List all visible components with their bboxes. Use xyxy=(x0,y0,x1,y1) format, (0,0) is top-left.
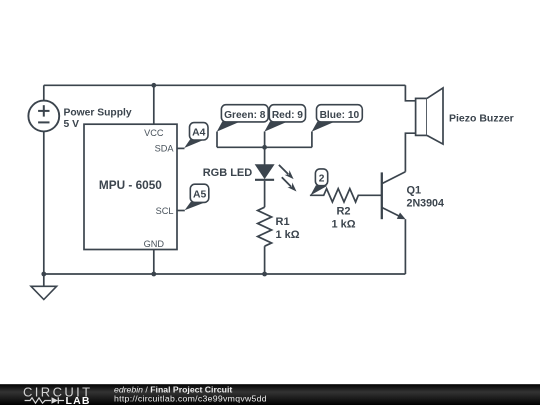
node junction power supply rail xyxy=(41,272,46,277)
speaker piezo buzzer SP1 xyxy=(416,88,514,144)
wire blue tag drop xyxy=(311,132,313,148)
svg-text:5 V: 5 V xyxy=(64,119,80,130)
node junction top rail to VCC xyxy=(151,83,156,88)
wire emitter to rail xyxy=(404,219,406,274)
svg-text:Green: 8: Green: 8 xyxy=(224,110,266,121)
svg-text:2N3904: 2N3904 xyxy=(407,198,444,210)
svg-text:Red: 9: Red: 9 xyxy=(272,110,303,121)
node tag Green: 8 xyxy=(217,105,268,132)
wire SCL pin xyxy=(177,210,185,212)
footer bar xyxy=(0,384,540,405)
svg-text:RGB LED: RGB LED xyxy=(203,167,253,179)
wire power supply top lead xyxy=(43,85,45,100)
wire green tag drop xyxy=(216,132,218,148)
svg-text:http://circuitlab.com/c3e99vmq: http://circuitlab.com/c3e99vmqvw5dd xyxy=(114,394,267,404)
node tag A5 xyxy=(185,184,209,210)
svg-text:LAB: LAB xyxy=(66,395,91,405)
svg-text:A4: A4 xyxy=(192,127,206,138)
node tag Blue: 10 xyxy=(312,105,363,132)
node tag 2 xyxy=(310,169,327,196)
wire GND drop xyxy=(153,250,155,275)
node junction R1 rail xyxy=(262,272,267,277)
node tag Red: 9 xyxy=(264,105,305,132)
wire VCC drop xyxy=(153,85,155,124)
wire SDA pin xyxy=(177,147,185,149)
svg-text:1 kΩ: 1 kΩ xyxy=(276,229,300,241)
svg-text:MPU - 6050: MPU - 6050 xyxy=(99,178,162,192)
power supply V1 5V xyxy=(28,101,131,132)
CircuitLab logo xyxy=(23,384,93,407)
svg-text:A5: A5 xyxy=(193,189,207,200)
resistor R2 1k xyxy=(310,189,382,231)
resistor R1 1k xyxy=(258,207,300,246)
svg-text:1 kΩ: 1 kΩ xyxy=(331,219,355,231)
wire collector to buzzer xyxy=(405,133,415,172)
op-amp MPU-6050 box U1 xyxy=(84,124,177,249)
svg-text:SDA: SDA xyxy=(155,144,175,154)
svg-text:SCL: SCL xyxy=(156,206,174,216)
svg-text:GND: GND xyxy=(144,239,165,249)
LED D1 RGB LED xyxy=(203,165,297,192)
svg-text:R2: R2 xyxy=(336,205,350,217)
ground xyxy=(31,274,57,300)
svg-text:Piezo Buzzer: Piezo Buzzer xyxy=(449,113,514,125)
svg-text:R1: R1 xyxy=(276,216,290,228)
svg-text:Power Supply: Power Supply xyxy=(64,107,132,118)
transistor Q1 2N3904 xyxy=(382,172,444,220)
svg-text:Q1: Q1 xyxy=(407,185,422,197)
wire bottom rail xyxy=(44,273,406,275)
wire top rail xyxy=(44,84,406,86)
svg-text:2: 2 xyxy=(319,173,325,184)
wire LED anode xyxy=(264,147,266,165)
wire tag bus xyxy=(217,146,312,148)
wire R1 to rail xyxy=(264,246,266,274)
svg-text:Blue: 10: Blue: 10 xyxy=(320,110,360,121)
wire red tag drop xyxy=(264,132,266,148)
wire top rail to buzzer xyxy=(405,85,415,101)
node tag A4 xyxy=(184,123,208,148)
node junction tag bus to LED xyxy=(262,145,267,150)
node junction GND rail xyxy=(151,272,156,277)
svg-text:VCC: VCC xyxy=(144,128,164,138)
wire power supply bottom lead xyxy=(43,131,45,274)
wire LED to R1 xyxy=(264,181,266,207)
